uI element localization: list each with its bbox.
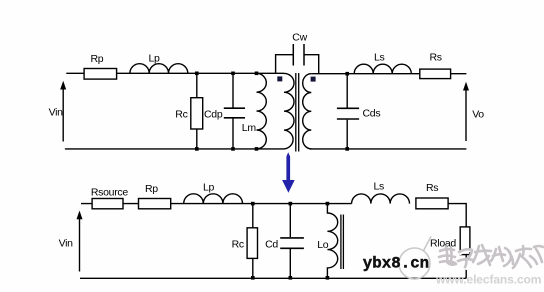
node: junction bottom rail / Rc (bottom circuit)	[251, 276, 255, 280]
node: junction top rail / Cdp	[231, 72, 235, 76]
wire: Rc top lead (bottom circuit)	[252, 204, 254, 228]
wire: Rc bottom lead	[196, 129, 198, 149]
resistor Rp (top circuit)	[84, 69, 117, 80]
inductor Lo	[327, 204, 337, 278]
resistor Rs (top circuit)	[420, 69, 451, 79]
source arrow Vin (top circuit)	[60, 81, 66, 142]
capacitor Cw plates	[293, 44, 304, 66]
node: junction bottom rail / Cds	[345, 147, 349, 151]
core lines (Lo)	[341, 215, 344, 270]
node: junction top rail / Rc (top circuit)	[195, 72, 199, 76]
polarity dot, secondary	[311, 77, 316, 82]
node: junction bottom rail / Lo	[326, 276, 330, 280]
svg-text:Rp: Rp	[91, 53, 104, 65]
wire: Cds top lead	[346, 74, 348, 108]
wire: Rc bottom lead (bottom circuit)	[252, 258, 254, 277]
svg-text:Vin: Vin	[49, 107, 64, 119]
wire: Rc top lead	[196, 73, 198, 97]
output arrow Vo	[463, 82, 469, 141]
wire: top circuit, left bottom rail	[65, 148, 285, 150]
capacitor Cdp	[224, 108, 245, 118]
svg-text:Cd: Cd	[265, 239, 278, 251]
svg-text:Rc: Rc	[175, 109, 187, 121]
wire: Rload bottom lead	[465, 255, 467, 279]
svg-text:Cw: Cw	[292, 32, 307, 44]
node: junction top rail / Lo	[326, 202, 330, 206]
resistor Rsource	[92, 199, 123, 209]
capacitor Cds	[337, 108, 359, 119]
wire: bottom circuit top rail	[81, 203, 352, 205]
resistor Rload	[460, 227, 470, 255]
resistor Rc (bottom circuit)	[247, 228, 257, 259]
node: junction bottom rail / Rc (top circuit)	[195, 147, 199, 151]
wire: Cds bottom lead	[346, 120, 348, 149]
source arrow Vin (bottom circuit)	[77, 211, 83, 272]
wire: Rs to Rload corner	[448, 204, 466, 227]
node: junction bottom rail / Cdp	[231, 147, 235, 151]
svg-text:Lp: Lp	[149, 53, 161, 65]
svg-text:Lp: Lp	[203, 181, 215, 193]
inductor Ls (bottom circuit)	[352, 194, 410, 204]
node: junction bottom rail / Lm	[255, 147, 259, 151]
svg-text:Rp: Rp	[145, 183, 158, 195]
resistor Rp (bottom circuit)	[139, 199, 171, 209]
svg-text:Ls: Ls	[374, 180, 385, 192]
resistor Rc (top circuit)	[191, 98, 203, 129]
svg-text:Ls: Ls	[374, 52, 385, 64]
transformer T1 core	[296, 73, 299, 152]
svg-text:Vo: Vo	[472, 108, 484, 120]
watermark: grey swoosh logo	[399, 237, 431, 280]
wire: top circuit, right bottom rail	[310, 148, 467, 150]
wire: bottom circuit bottom rail	[80, 277, 466, 279]
wire: Cdp top lead	[232, 73, 234, 107]
transformer T1 secondary winding	[303, 74, 312, 149]
svg-text:Cdp: Cdp	[204, 109, 223, 121]
node: junction top rail / Lm	[255, 72, 259, 76]
node: junction top rail / Cd	[289, 202, 293, 206]
resistor Rs (bottom circuit)	[416, 198, 448, 209]
wire: Cw left lead	[276, 55, 294, 74]
svg-text:Rload: Rload	[430, 237, 456, 249]
inductor Ls (top circuit)	[354, 64, 411, 74]
wire: Cd bottom lead	[289, 249, 291, 278]
capacitor Cd	[280, 238, 304, 248]
transformer T1 primary winding	[284, 73, 294, 148]
svg-text:Rc: Rc	[232, 239, 244, 251]
svg-text:Rs: Rs	[426, 182, 438, 194]
svg-text:Lo: Lo	[317, 239, 329, 251]
inductor Lp (top circuit)	[130, 64, 188, 74]
watermark: elecfans logo (CJK chars, embossed)	[439, 245, 544, 269]
blue transform arrow	[282, 152, 295, 193]
wire: Cdp bottom lead	[232, 119, 234, 149]
node: junction top rail / Rc (bottom circuit)	[251, 202, 255, 206]
svg-text:Rsource: Rsource	[91, 187, 128, 199]
inductor Lp (bottom circuit)	[184, 194, 243, 204]
svg-text:www.elecfans.com: www.elecfans.com	[435, 273, 541, 287]
wire: top circuit, right top rail	[311, 73, 466, 75]
wire: top circuit, left top rail	[66, 72, 284, 74]
svg-text:Lm: Lm	[242, 122, 257, 134]
svg-text:Rs: Rs	[430, 52, 442, 64]
svg-text:Vin: Vin	[59, 238, 74, 250]
node: junction top rail / Cds	[345, 72, 349, 76]
wire: Cd top lead	[289, 204, 291, 238]
svg-text:ybx8.cn: ybx8.cn	[363, 254, 429, 272]
inductor Lm (magnetizing)	[257, 73, 267, 149]
polarity dot, primary	[277, 76, 282, 81]
wire: Cw right lead	[304, 55, 319, 74]
svg-text:Cds: Cds	[363, 108, 381, 120]
node: junction bottom rail / Cd	[289, 276, 293, 280]
